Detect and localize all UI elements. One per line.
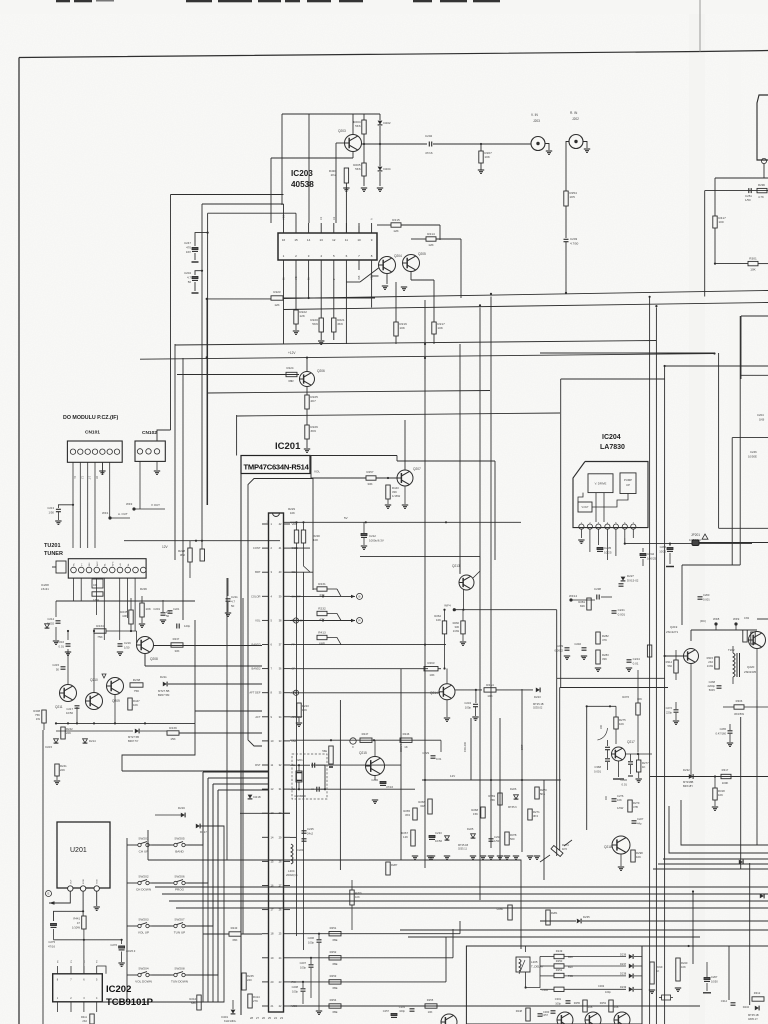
- resistor R266: [428, 799, 432, 814]
- svg-text:L5x31: L5x31: [41, 587, 49, 591]
- svg-text:R251: R251: [330, 926, 337, 930]
- svg-text:2200p: 2200p: [708, 684, 716, 688]
- capacitor C244: [627, 659, 632, 661]
- test point WF3: [132, 507, 135, 510]
- resistor R318: [713, 788, 717, 800]
- ic IC203 body: [278, 233, 377, 260]
- svg-text:D204: D204: [383, 167, 391, 171]
- svg-text:1/6W: 1/6W: [617, 806, 624, 810]
- svg-text:C302: C302: [542, 988, 549, 992]
- diode D227: [621, 577, 626, 581]
- box right: [757, 618, 768, 620]
- svg-text:TCB9101P: TCB9101P: [106, 997, 154, 1008]
- capacitor C208: [302, 982, 304, 988]
- svg-text:X1: X1: [319, 216, 323, 220]
- svg-text:0.0022: 0.0022: [554, 648, 563, 652]
- svg-text:3K3/5W: 3K3/5W: [734, 712, 744, 716]
- svg-text:R234: R234: [96, 624, 104, 628]
- resistor R281: [587, 598, 591, 610]
- svg-text:R215: R215: [392, 218, 400, 222]
- circ node: [293, 618, 298, 623]
- svg-text:44p: 44p: [637, 821, 642, 825]
- wire vertical right x664: [664, 366, 666, 1024]
- wire: [690, 630, 692, 641]
- resistor R277: [637, 760, 641, 772]
- svg-text:14: 14: [307, 238, 311, 242]
- svg-text:K: K: [295, 619, 297, 623]
- svg-text:1/10W: 1/10W: [72, 925, 80, 929]
- svg-text:12K: 12K: [393, 229, 399, 233]
- svg-text:SW208: SW208: [174, 967, 184, 971]
- resistor R312: [752, 997, 764, 1001]
- wire R250b: [508, 905, 512, 920]
- svg-text:100/25: 100/25: [647, 556, 657, 560]
- svg-text:BZX18Y: BZX18Y: [683, 784, 693, 788]
- svg-text:10K: 10K: [428, 1010, 433, 1014]
- svg-text:10K: 10K: [750, 268, 756, 272]
- resistor R413: [317, 635, 327, 639]
- svg-text:Q219: Q219: [670, 625, 678, 629]
- resistor R240: [676, 958, 680, 981]
- ic box top edge: [310, 455, 397, 457]
- svg-text:VD: VD: [599, 725, 603, 729]
- svg-text:10/50: 10/50: [711, 979, 718, 983]
- svg-text:1/50: 1/50: [745, 198, 751, 202]
- capacitor C243: [619, 583, 624, 585]
- svg-text:R223: R223: [273, 290, 281, 294]
- transistor bottom2: [585, 1012, 601, 1024]
- svg-text:C276: C276: [110, 943, 117, 947]
- svg-text:10K: 10K: [133, 703, 138, 707]
- wire wf4 long: [454, 609, 556, 611]
- wire y375: [740, 374, 768, 376]
- wire vertical x243: [242, 598, 244, 934]
- wire left long: [42, 730, 44, 1024]
- transistor Q213: [459, 575, 474, 590]
- svg-text:SW203: SW203: [138, 918, 148, 922]
- svg-text:V. DRIVE: V. DRIVE: [595, 482, 607, 486]
- svg-text:11: 11: [345, 238, 348, 242]
- wire q217 emitter: [626, 753, 653, 755]
- svg-text:330: 330: [455, 625, 460, 629]
- wire pw2: [290, 957, 453, 959]
- wire vertical br4: [749, 863, 751, 1005]
- ic IC204 outline: [573, 462, 648, 528]
- resistor R237: [171, 643, 183, 647]
- ground: [117, 651, 123, 653]
- wire nested L2: [560, 687, 668, 689]
- resistor R271: [528, 809, 532, 820]
- svg-text:V.OUT: V.OUT: [581, 506, 589, 509]
- ground: [156, 461, 158, 470]
- svg-text:R237: R237: [173, 637, 180, 641]
- resistor R267: [411, 830, 415, 846]
- svg-text:R238: R238: [133, 678, 141, 682]
- wire vertical right x656: [655, 308, 657, 1024]
- svg-text:WF4: WF4: [444, 604, 451, 608]
- transistor Q205: [403, 255, 420, 272]
- svg-text:C221: C221: [173, 607, 180, 611]
- resistor R255: [583, 1000, 587, 1012]
- border frame left: [18, 58, 20, 1024]
- svg-text:2SC2271: 2SC2271: [666, 630, 678, 634]
- border frame top: [19, 51, 768, 58]
- svg-text:C239: C239: [556, 644, 563, 648]
- capacitor C301: [566, 1000, 571, 1002]
- diode D212: [135, 729, 139, 734]
- resistor R265: [413, 808, 417, 820]
- svg-text:C268: C268: [709, 680, 716, 684]
- wire box entry: [466, 993, 540, 995]
- wire bus y307: [284, 303, 768, 310]
- capacitor C217: [75, 705, 80, 707]
- svg-text:33K: 33K: [367, 482, 372, 486]
- svg-text:A: A: [370, 218, 374, 220]
- resistor R252: [329, 956, 341, 960]
- diode D223: [536, 688, 540, 693]
- svg-text:TUN DOWN: TUN DOWN: [171, 980, 188, 984]
- svg-text:C260: C260: [703, 593, 710, 597]
- capacitor C216: [66, 643, 71, 645]
- svg-text:15K: 15K: [473, 812, 478, 816]
- svg-text:RU: RU: [74, 562, 76, 566]
- wire bus y415: [237, 413, 560, 416]
- wire crystal lines right: [311, 764, 401, 766]
- resistor R314: [674, 660, 678, 673]
- svg-text:R231: R231: [318, 582, 326, 586]
- svg-text:V. IN: V. IN: [531, 113, 538, 117]
- svg-text:C204: C204: [184, 271, 191, 275]
- svg-text:68K: 68K: [191, 1001, 196, 1005]
- svg-text:68E: 68E: [333, 938, 338, 942]
- resistor R235: [129, 610, 133, 624]
- capacitor C268: [717, 685, 722, 687]
- wire pw3: [290, 981, 446, 983]
- svg-text:R413: R413: [318, 631, 326, 635]
- coil L204: [290, 836, 296, 838]
- svg-text:3K3: 3K3: [533, 814, 538, 818]
- wire sw bus: [203, 771, 269, 773]
- transistor Q206: [300, 372, 315, 387]
- svg-text:R287: R287: [391, 863, 398, 867]
- svg-text:SW202: SW202: [138, 875, 148, 879]
- svg-text:R280: R280: [497, 907, 504, 911]
- svg-text:R251: R251: [556, 968, 563, 972]
- svg-text:C240: C240: [574, 642, 581, 646]
- resistor R282: [596, 632, 600, 644]
- wire vertical x491: [490, 297, 492, 849]
- svg-text:COLOR: COLOR: [463, 742, 467, 752]
- svg-text:R246: R246: [403, 732, 410, 736]
- resistor R262: [442, 621, 446, 634]
- transistor Q204: [379, 257, 396, 274]
- svg-text:D239: D239: [620, 985, 627, 989]
- wire q208 base: [106, 630, 137, 632]
- svg-text:TUN UP: TUN UP: [174, 931, 186, 935]
- svg-text:1K5: 1K5: [562, 847, 567, 851]
- svg-text:Q217: Q217: [627, 740, 635, 744]
- svg-text:10: 10: [357, 238, 361, 242]
- resistor R283: [596, 650, 600, 664]
- wire box vert: [525, 946, 527, 952]
- wire: [433, 143, 531, 145]
- svg-text:D225: D225: [467, 827, 474, 831]
- wire: [295, 270, 297, 310]
- svg-text:IC202: IC202: [106, 984, 131, 995]
- wire bus y358: [140, 354, 715, 360]
- resistor R214: [426, 237, 436, 241]
- svg-text:D232: D232: [683, 768, 690, 772]
- svg-text:1K: 1K: [404, 745, 408, 749]
- svg-text:R232: R232: [318, 607, 326, 611]
- svg-text:1/16W: 1/16W: [392, 494, 400, 498]
- diode D232: [689, 774, 693, 779]
- svg-text:100p: 100p: [308, 940, 314, 944]
- svg-text:5K6: 5K6: [540, 792, 545, 796]
- capacitor C207: [310, 958, 312, 964]
- sub box: [92, 579, 103, 588]
- svg-text:D235: D235: [583, 915, 590, 919]
- svg-text:68E: 68E: [333, 1010, 338, 1014]
- svg-text:OUT: OUT: [70, 879, 72, 884]
- resistor R378: [505, 832, 509, 845]
- svg-text:10/50: 10/50: [435, 839, 442, 843]
- svg-text:R279: R279: [633, 801, 640, 805]
- ic201 inner rounded outline: [248, 479, 313, 747]
- svg-text:R263: R263: [428, 661, 435, 665]
- wire: [67, 631, 69, 640]
- svg-text:Q213: Q213: [452, 564, 460, 568]
- wire vertical right x649: [649, 297, 651, 1024]
- wire q220: [756, 649, 758, 701]
- svg-text:C219: C219: [124, 641, 131, 645]
- svg-text:D211: D211: [160, 675, 167, 679]
- capacitor C242: [640, 553, 646, 555]
- diode D233: [739, 860, 743, 865]
- resistor R217: [433, 280, 435, 322]
- svg-text:C272: C272: [666, 706, 673, 710]
- svg-text:C276: C276: [617, 794, 624, 798]
- bottom box: [466, 946, 642, 1024]
- svg-text:100p: 100p: [292, 989, 298, 993]
- capacitor C214: [56, 620, 61, 622]
- svg-text:12K: 12K: [299, 314, 305, 318]
- test point WF8: [714, 622, 717, 625]
- wire bus y940: [54, 939, 122, 941]
- svg-text:R264: R264: [486, 683, 494, 687]
- ground: [293, 330, 299, 332]
- wire: [141, 596, 143, 603]
- svg-text:0.001: 0.001: [618, 612, 626, 616]
- svg-text:MOD: MOD: [83, 878, 85, 884]
- resistor R223: [271, 296, 283, 300]
- svg-text:47/16: 47/16: [386, 785, 393, 789]
- svg-text:3K2: 3K2: [180, 553, 186, 557]
- resistor R251: [329, 932, 341, 936]
- resistor R279: [647, 645, 651, 657]
- svg-text:C203: C203: [570, 237, 578, 241]
- resistor R216: [395, 282, 397, 322]
- svg-text:50: 50: [231, 604, 235, 608]
- transistor Q209: [107, 678, 124, 695]
- svg-text:10/50E: 10/50E: [748, 454, 757, 458]
- svg-text:0.001: 0.001: [703, 597, 710, 601]
- svg-text:16: 16: [282, 238, 286, 242]
- svg-text:CH UP: CH UP: [139, 850, 149, 854]
- connector right top: [757, 95, 768, 160]
- svg-text:C247: C247: [184, 241, 191, 245]
- svg-text:R411: R411: [81, 1015, 88, 1019]
- svg-text:IC204: IC204: [602, 434, 621, 441]
- wire: [308, 114, 310, 223]
- ic box left edge: [240, 474, 242, 1016]
- svg-text:VOL DOWN: VOL DOWN: [135, 980, 152, 984]
- svg-text:1W: 1W: [36, 717, 41, 721]
- svg-text:68K: 68K: [233, 938, 238, 942]
- wire cf: [290, 668, 428, 670]
- wire: [162, 600, 164, 612]
- svg-text:2K2: 2K2: [82, 1019, 87, 1023]
- svg-text:2SD2335: 2SD2335: [744, 670, 756, 674]
- ground: [343, 187, 349, 189]
- svg-text:5K6: 5K6: [355, 167, 361, 171]
- svg-text:C224: C224: [297, 848, 304, 852]
- svg-text:1K: 1K: [656, 969, 659, 973]
- svg-text:SW207: SW207: [174, 918, 184, 922]
- resistor R414: [248, 994, 252, 1008]
- svg-text:Q207: Q207: [413, 467, 421, 471]
- svg-text:0.01: 0.01: [633, 661, 639, 665]
- svg-text:4.7K: 4.7K: [758, 195, 764, 199]
- wire q219: [690, 664, 692, 701]
- svg-text:R315: R315: [707, 656, 714, 660]
- svg-text:100K: 100K: [722, 781, 729, 785]
- svg-text:100p: 100p: [300, 965, 306, 969]
- svg-text:C234: C234: [464, 701, 471, 705]
- svg-text:INB: INB: [357, 275, 361, 280]
- capacitor C203: [564, 238, 569, 240]
- svg-text:75K: 75K: [97, 635, 103, 639]
- resistor R276: [636, 703, 640, 715]
- svg-text:R248: R248: [516, 1009, 523, 1013]
- svg-text:C241: C241: [618, 608, 626, 612]
- svg-text:3K3: 3K3: [405, 813, 410, 817]
- resistor R270: [535, 787, 539, 799]
- wire vertical x460: [459, 344, 461, 573]
- delay line L205: [516, 957, 530, 972]
- resistor R222: [294, 310, 298, 324]
- resistor R479: [751, 632, 755, 644]
- wire CN101 drops: [72, 474, 74, 505]
- svg-text:R253: R253: [330, 974, 337, 978]
- wire: [56, 730, 133, 732]
- svg-text:WF8: WF8: [713, 617, 720, 621]
- transistor bottom1: [557, 1012, 573, 1024]
- svg-text:10/25: 10/25: [659, 549, 666, 553]
- wire bus bottom1: [148, 860, 521, 949]
- svg-text:D216: D216: [178, 806, 185, 810]
- wire pump: [624, 538, 626, 544]
- wire: [67, 649, 69, 685]
- resistor R411: [90, 1014, 94, 1024]
- svg-text:R240: R240: [681, 961, 688, 965]
- wire cnt: [290, 692, 440, 694]
- svg-text:J202: J202: [572, 117, 579, 121]
- ic TMP47 label box: [241, 456, 310, 474]
- svg-text:Q214: Q214: [430, 691, 438, 695]
- capacitor C206: [318, 934, 320, 939]
- svg-text:AFT DEF: AFT DEF: [249, 691, 261, 695]
- ground: [578, 539, 584, 541]
- resistor R269: [498, 793, 502, 805]
- svg-text:C212: C212: [369, 534, 376, 538]
- wire R215: [377, 224, 391, 226]
- svg-text:MT27.5B: MT27.5B: [128, 735, 139, 739]
- ic IC204 PUMP UP box: [620, 473, 636, 494]
- wire: [144, 654, 146, 667]
- svg-text:BAND2: BAND2: [252, 667, 261, 671]
- svg-text:1KB: 1KB: [759, 417, 764, 421]
- resistor R306: [734, 705, 744, 709]
- capacitor C234b: [489, 838, 494, 840]
- wire ic203 pin drops: [283, 270, 285, 344]
- wire right misc: [735, 624, 737, 630]
- wire bus y723: [56, 722, 195, 724]
- wire 5V rail2: [284, 521, 522, 523]
- capacitor C204c: [195, 271, 202, 275]
- svg-text:47/16: 47/16: [425, 151, 433, 155]
- wire y178 right: [715, 177, 768, 179]
- resistor R430: [345, 183, 347, 233]
- svg-text:C214: C214: [47, 617, 54, 621]
- svg-text:R317: R317: [722, 768, 729, 772]
- svg-text:X2: X2: [332, 216, 336, 220]
- svg-text:L205: L205: [531, 960, 538, 964]
- wire sw verticals: [202, 772, 204, 1002]
- svg-text:SW205: SW205: [174, 837, 184, 841]
- svg-text:R. IN: R. IN: [570, 111, 578, 115]
- capacitor C233: [429, 835, 435, 837]
- resistor R226: [305, 425, 309, 439]
- wire vertical br3: [740, 717, 742, 869]
- capacitor C368: [598, 728, 608, 740]
- wire y353: [540, 352, 715, 354]
- box right x732: [731, 438, 733, 565]
- wire rail drop: [281, 114, 283, 205]
- svg-text:1/4W: 1/4W: [707, 664, 714, 668]
- ic IC203 pins bottom: [283, 260, 285, 270]
- svg-text:1/50: 1/50: [124, 645, 130, 649]
- svg-text:82K: 82K: [580, 604, 585, 608]
- svg-text:(DC): (DC): [700, 619, 706, 623]
- svg-text:VOL UP: VOL UP: [138, 931, 149, 935]
- svg-text:24x2: 24x2: [307, 831, 314, 835]
- wire pw4: [290, 1005, 700, 1007]
- ic IC203 pins top: [283, 223, 285, 233]
- wire y776 right: [650, 776, 768, 778]
- svg-text:D238: D238: [620, 972, 627, 976]
- svg-text:Q209: Q209: [112, 699, 120, 703]
- capacitor C314: [731, 1002, 736, 1004]
- resistor R296: [757, 188, 767, 192]
- wire q217 col: [664, 886, 666, 888]
- svg-text:220/6.3: 220/6.3: [126, 949, 136, 953]
- components in box: [526, 1008, 530, 1021]
- svg-text:R260: R260: [355, 891, 362, 895]
- svg-text:1K5: 1K5: [569, 195, 575, 199]
- svg-text:D237: D237: [620, 962, 627, 966]
- wire rows join: [526, 957, 540, 988]
